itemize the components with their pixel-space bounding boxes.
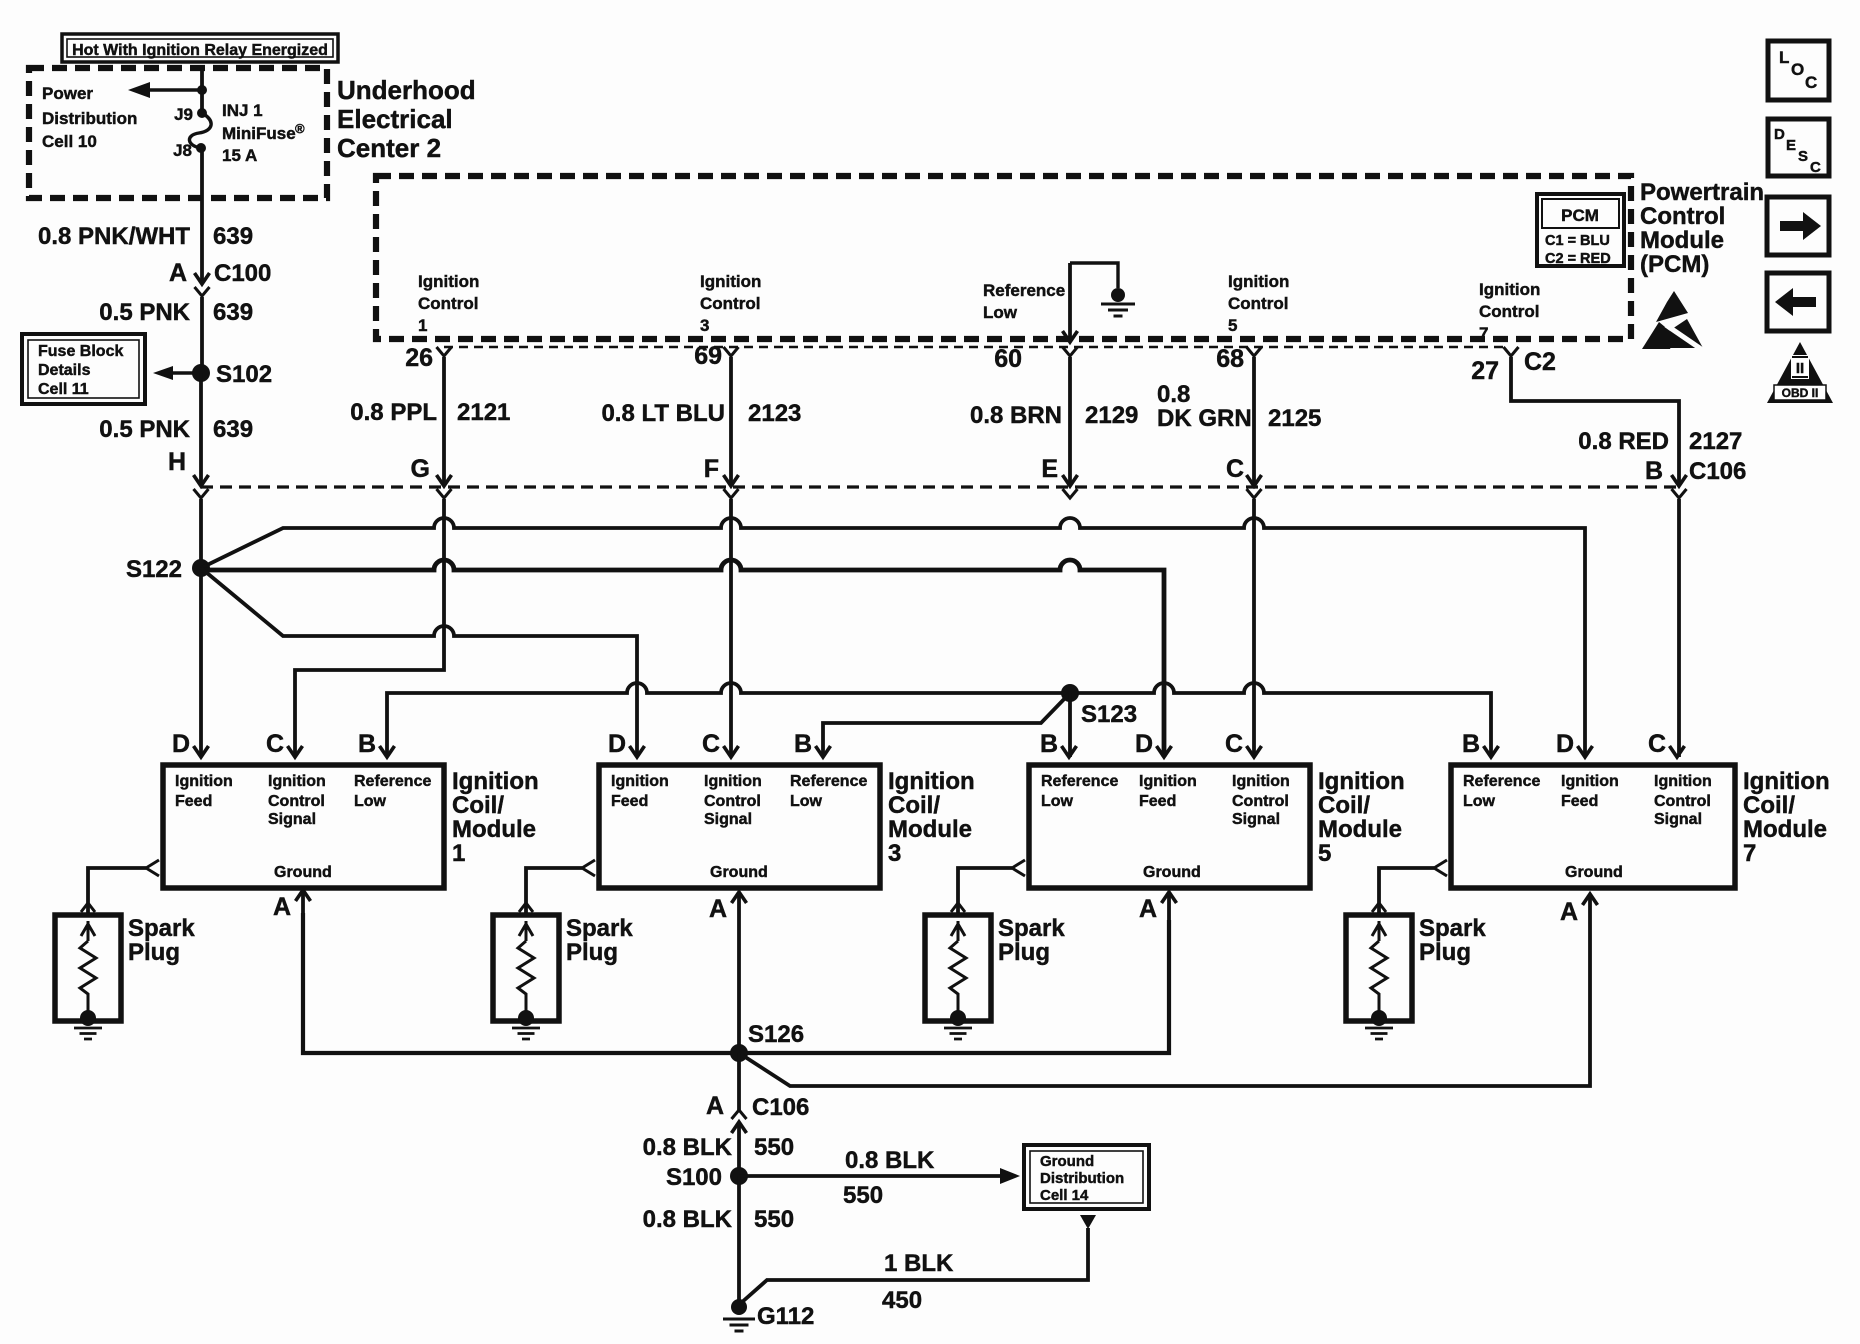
svg-text:Feed: Feed (1561, 793, 1598, 810)
svg-text:550: 550 (754, 1206, 794, 1233)
svg-text:Ignition: Ignition (1318, 768, 1405, 795)
splice S102 (192, 364, 210, 382)
svg-text:Control: Control (1232, 793, 1289, 810)
svg-text:B: B (1462, 730, 1480, 758)
svg-text:Module: Module (1743, 816, 1827, 843)
svg-text:Cell 14: Cell 14 (1040, 1187, 1089, 1204)
svg-text:J8: J8 (173, 141, 192, 160)
svg-text:Coil/: Coil/ (888, 792, 940, 819)
svg-text:Low: Low (790, 793, 823, 810)
fuse INJ 1 MiniFuse 15 A (197, 108, 207, 118)
svg-text:Reference: Reference (790, 773, 867, 790)
svg-text:Low: Low (983, 303, 1018, 322)
wire S126 to connector C106 pin A (737, 1053, 741, 1110)
forward arrow icon (1767, 197, 1829, 255)
PCM legend box (1537, 194, 1624, 266)
svg-text:Ignition: Ignition (1561, 773, 1619, 790)
connector C106 dashed line (201, 485, 1679, 488)
connector C106 crossing (pin C) (1247, 475, 1262, 486)
ignition coil/module 3 box (599, 765, 880, 888)
svg-text:Plug: Plug (128, 939, 180, 966)
svg-text:Spark: Spark (1419, 915, 1486, 942)
Ground Distribution Cell 14 box (1024, 1145, 1149, 1209)
ignition feed bus top to coil 7 pin D (201, 518, 1585, 757)
wire spark plug to coil 1 (88, 868, 146, 915)
svg-text:Center 2: Center 2 (337, 133, 441, 163)
svg-text:Distribution: Distribution (1040, 1170, 1124, 1187)
svg-text:Ignition: Ignition (1479, 280, 1540, 299)
svg-text:Control: Control (1479, 302, 1539, 321)
wire 0.8 RED 2127 (ignition control 7) (1511, 357, 1679, 486)
svg-text:0.5 PNK: 0.5 PNK (99, 416, 190, 443)
wire H to coil 1 pin D (199, 499, 203, 757)
svg-text:0.5 PNK: 0.5 PNK (99, 299, 190, 326)
svg-text:2127: 2127 (1689, 428, 1742, 455)
svg-text:Ignition: Ignition (1228, 272, 1289, 291)
svg-text:Feed: Feed (175, 793, 212, 810)
svg-text:Control: Control (418, 294, 478, 313)
svg-text:1 BLK: 1 BLK (884, 1250, 954, 1277)
wire 0.5 PNK 639 lower (199, 373, 203, 486)
svg-text:Plug: Plug (998, 939, 1050, 966)
wire S126 to coil 5 pin A (739, 920, 1169, 1053)
wire coil 3 pin A to S126 (737, 918, 741, 1053)
svg-text:0.8 RED: 0.8 RED (1578, 428, 1669, 455)
connector C106 crossing (pin F) (724, 475, 739, 486)
svg-text:Ignition: Ignition (611, 773, 669, 790)
wire B to coil 7 pin C (1677, 499, 1681, 757)
wire 0.8 PPL 2121 (ignition control 1) (442, 357, 446, 486)
svg-text:Low: Low (354, 793, 387, 810)
svg-text:C106: C106 (1689, 458, 1746, 485)
connector C106 crossing (pin G) (437, 475, 452, 486)
ignition coil/module 7 box (1451, 765, 1735, 888)
svg-text:0.8: 0.8 (1157, 381, 1190, 408)
spark plug (cyl 7) (1346, 915, 1412, 1021)
svg-text:C2 = RED: C2 = RED (1545, 251, 1611, 267)
Underhood Electrical Center 2 dashed box (29, 68, 327, 198)
wire 0.8 LT BLU 2123 (ignition control 3) (729, 357, 733, 486)
junction dot at relay feed (197, 85, 207, 95)
OBD II icon (1767, 342, 1833, 403)
svg-text:Plug: Plug (566, 939, 618, 966)
svg-text:2125: 2125 (1268, 405, 1321, 432)
back arrow icon (1767, 273, 1829, 331)
svg-text:7: 7 (1479, 324, 1488, 343)
wire S126 to coil 7 pin A (739, 918, 1590, 1086)
svg-text:S126: S126 (748, 1021, 804, 1048)
wire: ignition feed into fuse (200, 68, 204, 113)
svg-text:S: S (1798, 148, 1808, 165)
svg-text:Ground: Ground (1565, 864, 1623, 881)
svg-text:Ground: Ground (710, 864, 768, 881)
svg-text:Powertrain: Powertrain (1640, 179, 1764, 206)
svg-text:Signal: Signal (1654, 811, 1702, 828)
svg-text:Spark: Spark (566, 915, 633, 942)
wire ground distribution to G112 (1080, 1215, 1096, 1229)
svg-text:A: A (1560, 898, 1578, 926)
svg-text:Fuse Block: Fuse Block (38, 343, 123, 360)
svg-text:Reference: Reference (1041, 773, 1118, 790)
svg-text:3: 3 (888, 840, 901, 867)
svg-text:G: G (411, 455, 430, 483)
svg-text:Ignition: Ignition (888, 768, 975, 795)
svg-text:F: F (704, 455, 719, 483)
svg-text:Ignition: Ignition (1743, 768, 1830, 795)
svg-text:0.8 PNK/WHT: 0.8 PNK/WHT (38, 223, 190, 250)
svg-text:2121: 2121 (457, 399, 510, 426)
svg-text:OBD II: OBD II (1782, 386, 1819, 400)
svg-text:C100: C100 (214, 260, 271, 287)
svg-text:Ignition: Ignition (1654, 773, 1712, 790)
spark plug (cyl 1) (55, 915, 121, 1021)
svg-text:Details: Details (38, 362, 91, 379)
svg-text:2129: 2129 (1085, 402, 1138, 429)
PCM connector line C1/C2 (444, 346, 1503, 349)
svg-text:E: E (1041, 455, 1058, 483)
svg-text:0.8 LT BLU: 0.8 LT BLU (601, 400, 725, 427)
splice S122 (192, 559, 210, 577)
svg-text:Cell 11: Cell 11 (38, 381, 89, 398)
svg-text:Power: Power (42, 84, 93, 103)
svg-text:Control: Control (1640, 203, 1725, 230)
svg-text:450: 450 (882, 1287, 922, 1314)
svg-text:15 A: 15 A (222, 146, 257, 165)
svg-text:II: II (1796, 360, 1804, 377)
svg-text:A: A (706, 1092, 724, 1120)
svg-text:Coil/: Coil/ (1318, 792, 1370, 819)
svg-text:Ignition: Ignition (700, 272, 761, 291)
svg-text:Feed: Feed (611, 793, 648, 810)
svg-text:H: H (168, 448, 186, 476)
ignition feed bus middle to coil 5 pin D (201, 560, 1164, 757)
svg-text:Ground: Ground (274, 864, 332, 881)
svg-text:639: 639 (213, 223, 253, 250)
arrow to Power Distribution Cell 10 (149, 88, 202, 92)
svg-text:Control: Control (268, 793, 325, 810)
svg-text:C: C (1648, 730, 1666, 758)
svg-text:Reference: Reference (983, 281, 1065, 300)
svg-text:1: 1 (452, 840, 465, 867)
wire S123 to coil 5 pin B (1068, 693, 1072, 757)
ground G112 (731, 1299, 747, 1315)
svg-text:7: 7 (1743, 840, 1756, 867)
splice S100 (730, 1167, 748, 1185)
svg-text:27: 27 (1471, 357, 1499, 385)
svg-text:C: C (1225, 730, 1243, 758)
svg-text:D: D (1135, 730, 1153, 758)
wire S100 to G112 (737, 1176, 741, 1303)
svg-text:Ignition: Ignition (268, 773, 326, 790)
svg-text:S100: S100 (666, 1164, 722, 1191)
svg-text:0.8 PPL: 0.8 PPL (350, 399, 437, 426)
svg-text:Module: Module (1640, 227, 1724, 254)
svg-text:L: L (1779, 48, 1789, 67)
svg-text:DK GRN: DK GRN (1157, 405, 1252, 432)
splice S126 (730, 1044, 748, 1062)
svg-text:0.8 BLK: 0.8 BLK (643, 1206, 733, 1233)
svg-text:C: C (266, 730, 284, 758)
wire 0.8 PNK/WHT 639 (200, 148, 204, 284)
wire F to coil 3 pin C (729, 499, 733, 757)
svg-text:69: 69 (694, 342, 722, 370)
svg-text:C: C (1805, 73, 1817, 92)
svg-text:D: D (1774, 126, 1785, 143)
svg-text:Cell 10: Cell 10 (42, 132, 97, 151)
reference low bus (387, 683, 1491, 757)
wire S123 to coil 3 pin B (823, 693, 1070, 757)
Fuse Block Details Cell 11 box (22, 334, 145, 404)
svg-text:A: A (709, 895, 727, 923)
svg-text:Ignition: Ignition (452, 768, 539, 795)
svg-text:Ignition: Ignition (418, 272, 479, 291)
svg-text:Electrical: Electrical (337, 104, 453, 134)
PCM internal ground for reference low (1070, 263, 1118, 288)
svg-text:0.8 BLK: 0.8 BLK (845, 1147, 935, 1174)
svg-text:Control: Control (704, 793, 761, 810)
ignition coil/module 1 box (163, 765, 444, 888)
svg-text:5: 5 (1228, 316, 1237, 335)
svg-text:1: 1 (418, 316, 427, 335)
DESC icon (1768, 119, 1829, 176)
wire 0.8 BRN 2129 (reference low) (1068, 357, 1072, 486)
svg-text:C1 = BLU: C1 = BLU (1545, 233, 1610, 249)
arrow from S102 to Fuse Block (172, 371, 195, 375)
svg-text:Ignition: Ignition (175, 773, 233, 790)
svg-text:Control: Control (700, 294, 760, 313)
wire S100 to ground distribution cell 14 (739, 1174, 1004, 1178)
splice S123 (1061, 684, 1079, 702)
wire coil 1 pin A to S126 (303, 913, 732, 1053)
wire spark plug to coil 7 (1379, 868, 1434, 915)
svg-text:Spark: Spark (128, 915, 195, 942)
wire spark plug to coil 5 (958, 868, 1012, 915)
svg-text:E: E (1786, 137, 1796, 154)
svg-text:639: 639 (213, 416, 253, 443)
svg-text:5: 5 (1318, 840, 1331, 867)
svg-text:Ground: Ground (1143, 864, 1201, 881)
LOC icon (1768, 41, 1829, 100)
PCM pin 60 (1063, 331, 1078, 342)
svg-text:Ignition: Ignition (704, 773, 762, 790)
svg-text:B: B (1645, 457, 1663, 485)
svg-text:26: 26 (405, 344, 433, 372)
svg-text:C: C (702, 730, 720, 758)
svg-text:C: C (1810, 159, 1821, 176)
svg-text:O: O (1791, 60, 1804, 79)
svg-text:550: 550 (754, 1134, 794, 1161)
ignition coil/module 5 box (1029, 765, 1310, 888)
svg-text:G112: G112 (757, 1303, 814, 1330)
svg-text:Module: Module (888, 816, 972, 843)
wire C to coil 5 pin C (1252, 499, 1256, 757)
svg-text:Signal: Signal (268, 811, 316, 828)
svg-text:Coil/: Coil/ (1743, 792, 1795, 819)
svg-text:C2: C2 (1524, 348, 1556, 376)
svg-text:Ignition: Ignition (1232, 773, 1290, 790)
svg-text:60: 60 (994, 345, 1022, 373)
svg-text:Plug: Plug (1419, 939, 1471, 966)
ignition feed bus bottom to coil 3 pin D (201, 568, 637, 757)
svg-text:S123: S123 (1081, 701, 1137, 728)
svg-text:B: B (358, 730, 376, 758)
svg-text:INJ 1: INJ 1 (222, 101, 263, 120)
svg-text:B: B (794, 730, 812, 758)
svg-text:550: 550 (843, 1182, 883, 1209)
svg-text:Signal: Signal (1232, 811, 1280, 828)
svg-text:Low: Low (1463, 793, 1496, 810)
svg-text:D: D (172, 730, 190, 758)
svg-text:Hot With Ignition Relay Energi: Hot With Ignition Relay Energized (72, 42, 328, 59)
svg-text:0.8 BLK: 0.8 BLK (643, 1134, 733, 1161)
svg-text:S122: S122 (126, 556, 182, 583)
svg-text:PCM: PCM (1561, 206, 1599, 225)
svg-text:C106: C106 (752, 1094, 809, 1121)
svg-text:S102: S102 (216, 361, 272, 388)
svg-text:Control: Control (1228, 294, 1288, 313)
wire G to coil 1 pin C (295, 499, 444, 757)
svg-text:3: 3 (700, 316, 709, 335)
svg-text:639: 639 (213, 299, 253, 326)
connector C106 crossing (pin B) (1672, 475, 1687, 486)
svg-text:Underhood: Underhood (337, 75, 476, 105)
connector C106 crossing (pin E) (1063, 475, 1078, 486)
svg-text:Coil/: Coil/ (452, 792, 504, 819)
connector C100 (pin A) (195, 273, 210, 284)
svg-text:C: C (1226, 455, 1244, 483)
svg-text:Ignition: Ignition (1139, 773, 1197, 790)
svg-text:®: ® (295, 121, 305, 136)
wire spark plug to coil 3 (526, 868, 582, 915)
svg-text:Spark: Spark (998, 915, 1065, 942)
label box: Hot With Ignition Relay Energized (62, 34, 338, 62)
ESD sensitive symbol (1656, 291, 1688, 322)
svg-text:J9: J9 (174, 105, 193, 124)
svg-text:MiniFuse: MiniFuse (222, 124, 296, 143)
svg-text:Module: Module (1318, 816, 1402, 843)
svg-text:Reference: Reference (354, 773, 431, 790)
wire 0.5 PNK 639 upper (200, 297, 204, 373)
svg-text:Ground: Ground (1040, 1153, 1094, 1170)
svg-text:B: B (1040, 730, 1058, 758)
svg-text:Feed: Feed (1139, 793, 1176, 810)
svg-text:D: D (608, 730, 626, 758)
Powertrain Control Module dashed box (376, 176, 1631, 339)
spark plug (cyl 3) (493, 915, 559, 1021)
svg-text:0.8 BRN: 0.8 BRN (970, 402, 1062, 429)
svg-text:Distribution: Distribution (42, 109, 137, 128)
spark plug (cyl 5) (925, 915, 991, 1021)
svg-text:2123: 2123 (748, 400, 801, 427)
svg-text:A: A (273, 893, 291, 921)
svg-text:Module: Module (452, 816, 536, 843)
svg-text:68: 68 (1216, 345, 1244, 373)
svg-text:Control: Control (1654, 793, 1711, 810)
svg-text:Signal: Signal (704, 811, 752, 828)
svg-text:Low: Low (1041, 793, 1074, 810)
wire 0.8 DK GRN 2125 (ignition control 5) (1252, 357, 1256, 486)
svg-text:(PCM): (PCM) (1640, 251, 1709, 278)
svg-text:A: A (1139, 895, 1157, 923)
svg-text:A: A (169, 259, 187, 287)
svg-text:D: D (1556, 730, 1574, 758)
svg-text:Reference: Reference (1463, 773, 1540, 790)
connector C106 crossing (pin H) (194, 475, 209, 486)
